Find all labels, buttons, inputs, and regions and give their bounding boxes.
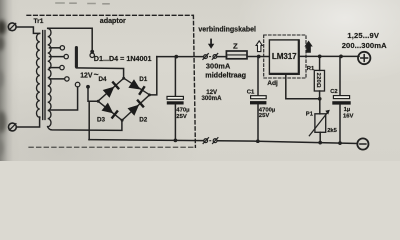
connector pair top rail: [203, 54, 218, 60]
reservoir capacitor 470u plates: [167, 96, 184, 104]
scan edge blob bottom-left: [0, 111, 6, 133]
svg-text:300mA: 300mA: [202, 95, 223, 102]
LM317 dashed module box: [264, 35, 306, 78]
capacitor C1 plates: [250, 96, 266, 105]
socket circle on AC1 column: [90, 53, 94, 57]
svg-text:12V~: 12V~: [80, 69, 98, 79]
svg-text:2k5: 2k5: [327, 128, 337, 134]
wire to C1: [257, 57, 259, 96]
scan edge blob center-left: [0, 70, 3, 88]
svg-text:D4: D4: [99, 76, 108, 83]
svg-text:Z: Z: [233, 42, 238, 51]
transformer Tr1 primary winding: [37, 33, 40, 117]
mains plug top: [8, 23, 16, 31]
svg-text:25V: 25V: [259, 113, 270, 119]
wire rail to C2: [339, 56, 341, 96]
wire C2 to minus rail: [339, 104, 341, 143]
junction dot C2 bottom: [338, 141, 342, 145]
P1 wiper arrow: [309, 113, 327, 136]
svg-text:16V: 16V: [343, 113, 354, 119]
wire C1 to minus rail: [257, 104, 259, 141]
junction dot 470u: [174, 55, 178, 59]
tap socket 3: [60, 65, 64, 69]
tap socket 1: [60, 46, 64, 50]
mains plug bottom: [9, 123, 17, 131]
svg-text:LM317: LM317: [272, 52, 297, 61]
plug dot at bridge AC feed: [86, 85, 90, 89]
svg-text:Adj: Adj: [267, 80, 278, 87]
svg-text:470µ: 470µ: [176, 107, 190, 113]
transformer Tr1 secondary winding: [48, 28, 51, 126]
voltage selector bar: [75, 48, 78, 67]
wire plug top to primary: [16, 27, 39, 33]
tap socket 2: [64, 54, 68, 58]
bridge rectifier edges: [98, 78, 150, 120]
tap stub 4: [50, 78, 65, 80]
regulator U1 LM317 box: [269, 40, 298, 74]
scan edge blob lower-left: [0, 140, 3, 156]
dashed divider verbindingskabel: [193, 15, 195, 147]
wire rail to R1: [319, 56, 321, 70]
output terminal minus: [357, 138, 368, 149]
svg-text:1µ: 1µ: [344, 107, 351, 113]
scan edge blob mid-left: [0, 36, 4, 51]
arrow pointer verbindingskabel: [208, 39, 214, 49]
tap socket 4: [65, 77, 69, 81]
diode D3: [102, 103, 119, 120]
junction dot R1 top: [318, 55, 322, 59]
dashed adaptor box bottom: [29, 146, 195, 148]
capacitor C2 plates: [332, 96, 350, 105]
svg-text:D1...D4 = 1N4001: D1...D4 = 1N4001: [94, 54, 152, 63]
fuse Z: [226, 51, 247, 59]
stray page dashes top edge: [56, 2, 109, 5]
wire plug bottom to primary: [17, 117, 40, 127]
svg-text:D2: D2: [139, 116, 148, 123]
junction dot C2 top: [339, 55, 343, 59]
svg-text:D3: D3: [97, 116, 106, 123]
svg-text:200...300mA: 200...300mA: [342, 41, 387, 50]
wire secondary top to AC1 column: [48, 28, 92, 50]
junction dot C1 bottom: [256, 139, 260, 143]
svg-text:P1: P1: [306, 111, 314, 117]
svg-text:300mA: 300mA: [206, 62, 231, 71]
svg-text:middeltraag: middeltraag: [205, 70, 246, 79]
tap stub 3: [50, 67, 60, 69]
wire secondary bottom AC: [48, 120, 122, 130]
wire selector bar to bridge top vertex: [76, 68, 123, 78]
wire bridge right vertex to plus rail: [149, 57, 156, 95]
svg-text:adaptor: adaptor: [100, 17, 126, 25]
12V tap wire to socket: [50, 87, 78, 110]
svg-text:Tr1: Tr1: [34, 18, 44, 25]
bridge vertex dots: [97, 77, 151, 122]
junction dot cap bottom: [174, 139, 178, 143]
output terminal plus: [358, 52, 370, 64]
junction dot Adj/R1: [318, 97, 322, 101]
wire junction to P1: [319, 99, 321, 114]
dashed adaptor box top: [27, 14, 193, 16]
plus rail: [157, 55, 359, 57]
svg-text:C1: C1: [247, 89, 255, 95]
tap stub 1: [50, 47, 61, 49]
plug dot on AC1 column: [90, 50, 94, 54]
output connector arrow (filled): [306, 42, 312, 53]
junction dot P1 bottom: [318, 141, 322, 145]
minus rail: [89, 140, 357, 144]
wire cap to minus rail: [174, 104, 176, 140]
input connector arrow (hollow): [256, 41, 262, 52]
scan edge blob top-left: [0, 20, 6, 35]
diode D1: [128, 79, 145, 95]
socket circle on 12V tap: [75, 82, 80, 87]
tap stub 2: [50, 56, 64, 58]
svg-text:220Ω: 220Ω: [315, 73, 321, 88]
svg-text:D1: D1: [139, 76, 148, 83]
wire plug to bridge left vertex and down to minus rail: [88, 87, 98, 139]
svg-text:C2: C2: [330, 89, 337, 95]
diode D4: [103, 81, 120, 98]
connector pair bottom rail: [203, 138, 218, 144]
wire P1 to minus rail: [319, 132, 321, 142]
wire to reservoir cap: [174, 57, 176, 96]
svg-text:1,25...9V: 1,25...9V: [347, 31, 380, 40]
svg-text:R1: R1: [307, 66, 315, 72]
junction dot C1 top: [257, 55, 261, 59]
svg-text:25V: 25V: [176, 114, 187, 120]
transformer core: [43, 31, 45, 120]
wire R1 to junction: [319, 91, 321, 99]
svg-text:verbindingskabel: verbindingskabel: [198, 27, 256, 34]
diode D2: [128, 99, 145, 116]
Adj pin wire: [286, 74, 320, 99]
potentiometer P1: [315, 114, 326, 133]
resistor R1: [314, 70, 324, 91]
